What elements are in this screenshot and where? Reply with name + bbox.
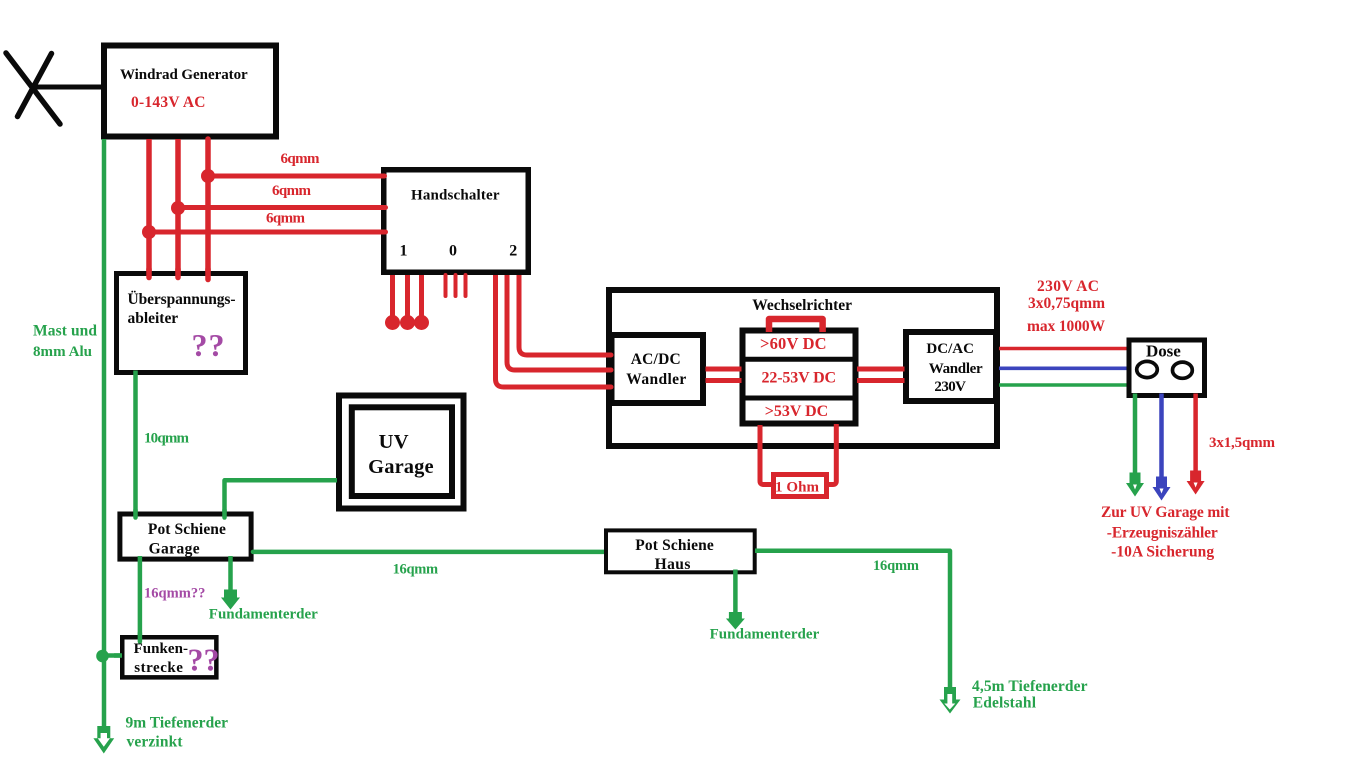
wire 230V line L to Dose (999, 347, 1128, 351)
wire 6qmm top stub over border (376, 174, 385, 179)
svg-text:6qmm: 6qmm (266, 211, 306, 227)
block Handschalter switch S1 (384, 170, 529, 273)
block Pot Schiene Haus (606, 530, 755, 572)
wire terminal 0a stub (444, 275, 448, 296)
svg-text:-Erzeugniszähler: -Erzeugniszähler (1107, 525, 1218, 542)
svg-text:Edelstahl: Edelstahl (973, 695, 1037, 712)
wire phase L2 tip into surge arrester (175, 269, 181, 278)
wire terminal 2b to AC/DC Wandler (507, 275, 612, 370)
svg-text:Windrad Generator: Windrad Generator (120, 67, 248, 83)
svg-text:ableiter: ableiter (128, 310, 179, 327)
svg-text:Haus: Haus (655, 556, 691, 573)
svg-text:9m Tiefenerder: 9m Tiefenerder (126, 715, 229, 732)
wind turbine rotor blade 1 (6, 53, 60, 124)
svg-text:1: 1 (400, 243, 408, 260)
junction node phase L2 (171, 201, 185, 215)
svg-text:Überspannungs-: Überspannungs- (128, 291, 236, 308)
svg-text:verzinkt: verzinkt (127, 734, 184, 751)
wire UV Garage to Pot Schiene Garage (225, 480, 338, 514)
wire 16qmm Haus to Tiefenerder (755, 551, 950, 688)
svg-text:Mast und: Mast und (33, 323, 97, 340)
wire DC bus lower stack to DC/AC (857, 378, 905, 383)
divider line upper (741, 357, 857, 362)
wire 6qmm bottom stub over border (376, 230, 386, 235)
svg-text:16qmm??: 16qmm?? (144, 586, 205, 602)
svg-text:1 Ohm: 1 Ohm (775, 480, 820, 496)
junction node phase L3 (201, 169, 215, 183)
block Dose socket outlet (1129, 340, 1205, 396)
block Windrad Generator (104, 46, 276, 137)
wire 6qmm middle stub over border (376, 205, 386, 210)
arrow 4,5m Tiefenerder outline (940, 687, 961, 714)
wire 230V earth PE to Dose (999, 383, 1128, 387)
svg-text:4,5m Tiefenerder: 4,5m Tiefenerder (972, 678, 1088, 695)
svg-text:230V: 230V (934, 379, 966, 395)
svg-text:>53V DC: >53V DC (765, 403, 828, 420)
wind turbine rotor blade 2 (18, 54, 52, 117)
socket contact left circle (1137, 361, 1158, 377)
block DC/AC Wandler 230V (906, 332, 996, 401)
node terminal 1c dot (414, 315, 429, 330)
wire terminal 2b tip over border (601, 368, 611, 373)
arrow 9m Tiefenerder outline (93, 726, 114, 754)
wire line L down from Dose (1193, 394, 1198, 472)
wire dump load left leg (760, 425, 773, 485)
junction node mast to Funkenstrecke (96, 650, 109, 663)
arrow 4,5m Tiefenerder white inner (944, 694, 955, 710)
svg-text:Pot Schiene: Pot Schiene (148, 521, 226, 538)
node terminal 1a dot (385, 315, 400, 330)
wire phase L3 vertical from generator (205, 139, 211, 279)
svg-text:Wechselrichter: Wechselrichter (752, 297, 852, 314)
wire Fundamenterder Haus shaft (733, 570, 738, 614)
wire DC bus upper stack to DC/AC (857, 367, 905, 372)
svg-text:22-53V DC: 22-53V DC (762, 370, 837, 387)
svg-text:strecke: strecke (134, 660, 183, 676)
svg-text:??: ?? (188, 642, 220, 678)
arrow line L head (1187, 471, 1205, 495)
resistor 1 Ohm dump load (774, 475, 827, 497)
svg-text:Wandler: Wandler (626, 371, 686, 388)
wire phase L3 tip into surge arrester (205, 269, 211, 280)
wire 16qmm Garage to Haus (253, 550, 606, 555)
wire terminal 2c tip over border (601, 353, 611, 358)
wire dump load right leg (825, 424, 836, 485)
svg-text:??: ?? (192, 327, 225, 363)
divider line lower (741, 396, 857, 401)
svg-text:-10A Sicherung: -10A Sicherung (1111, 544, 1214, 561)
svg-text:3x0,75qmm: 3x0,75qmm (1028, 295, 1105, 312)
wire terminal 0c stub (464, 275, 468, 296)
svg-text:3x1,5qmm: 3x1,5qmm (1209, 435, 1276, 451)
wire terminal 0b stub (454, 275, 458, 296)
wire mast to Funkenstrecke stub (103, 653, 123, 658)
svg-text:2: 2 (509, 243, 517, 260)
arrow Fundamenterder Garage head (221, 590, 240, 610)
svg-text:16qmm: 16qmm (393, 562, 439, 578)
block Funkenstrecke spark gap (122, 637, 216, 677)
wire 230V neutral N to Dose (999, 366, 1128, 370)
arrow earth PE head (1126, 473, 1144, 497)
svg-text:8mm Alu: 8mm Alu (33, 344, 92, 360)
svg-text:max 1000W: max 1000W (1027, 318, 1106, 335)
arrow neutral N white notch (1160, 489, 1164, 494)
svg-text:10qmm: 10qmm (144, 431, 190, 447)
arrow earth PE white notch (1133, 485, 1137, 490)
wind turbine shaft wire (33, 85, 104, 90)
wire phase L1 tip into surge arrester (146, 269, 152, 278)
svg-text:Fundamenterder: Fundamenterder (710, 627, 820, 643)
wire 6qmm top to Handschalter (208, 174, 384, 179)
svg-text:Dose: Dose (1146, 342, 1181, 361)
wire tip into Funkenstrecke from Pot Garage (138, 633, 143, 642)
wire 6qmm middle to Handschalter (178, 205, 384, 210)
block UV Garage outer (339, 396, 464, 509)
svg-text:0-143V AC: 0-143V AC (131, 94, 206, 111)
svg-text:0: 0 (449, 243, 457, 260)
wire mast earth conductor (102, 139, 107, 727)
block Ueberspannungsableiter surge arrester (117, 274, 246, 373)
wire tip into Funkenstrecke from mast (114, 653, 122, 658)
svg-text:DC/AC: DC/AC (926, 341, 974, 357)
wire Fundamenterder Garage shaft (228, 556, 233, 591)
wire red bracket above >60V DC (769, 319, 823, 332)
svg-text:Zur UV Garage mit: Zur UV Garage mit (1101, 504, 1230, 521)
node terminal 1b dot (400, 315, 415, 330)
svg-text:Pot Schiene: Pot Schiene (635, 537, 714, 554)
wire Pot Garage to Funkenstrecke (138, 556, 143, 638)
svg-text:UV: UV (379, 431, 409, 453)
svg-text:Fundamenterder: Fundamenterder (209, 607, 318, 623)
wire phase L2 vertical from generator (175, 139, 181, 277)
block voltage window stack (743, 331, 856, 424)
svg-text:Wandler: Wandler (929, 361, 983, 377)
junction node phase L1 (142, 225, 156, 239)
svg-text:16qmm: 16qmm (873, 558, 919, 574)
wire terminal 2a to AC/DC Wandler (496, 275, 613, 387)
block Pot Schiene Garage (120, 514, 251, 559)
svg-text:Garage: Garage (368, 456, 434, 478)
wire DC bus upper AC/DC to stack (706, 367, 742, 372)
block Wechselrichter inverter enclosure (609, 290, 997, 446)
arrow 9m Tiefenerder white inner (98, 733, 110, 747)
wire terminal 1b stub (405, 275, 410, 317)
wire terminal 1a stub (390, 275, 395, 317)
wire earth PE down from Dose (1133, 394, 1138, 474)
wire terminal 2c to AC/DC Wandler (519, 275, 612, 355)
arrow Fundamenterder Haus head (726, 612, 745, 630)
arrow line L white notch (1194, 483, 1198, 488)
svg-text:AC/DC: AC/DC (631, 351, 681, 368)
wire 10qmm tip into Pot Schiene Garage (133, 510, 138, 518)
wire terminal 1c stub (419, 275, 424, 317)
wire DC bus lower AC/DC to stack (706, 378, 742, 383)
block AC/DC Wandler (612, 335, 704, 403)
svg-text:Funken-: Funken- (134, 641, 188, 657)
svg-text:6qmm: 6qmm (281, 151, 321, 167)
svg-text:Garage: Garage (149, 541, 200, 558)
arrow neutral N head (1153, 477, 1171, 501)
socket contact right circle (1173, 362, 1193, 378)
wire neutral N down from Dose (1159, 394, 1164, 478)
wire terminal 2a tip over border (601, 385, 611, 390)
svg-text:>60V DC: >60V DC (760, 334, 827, 353)
wire UV Garage tip into Pot Schiene Garage (222, 510, 227, 518)
svg-text:230V AC: 230V AC (1037, 278, 1099, 295)
block UV Garage inner (352, 407, 452, 496)
svg-text:Handschalter: Handschalter (411, 188, 500, 204)
svg-text:6qmm: 6qmm (272, 183, 312, 199)
wire phase L1 vertical from generator (146, 139, 152, 277)
wire 6qmm bottom to Handschalter (149, 230, 384, 235)
wire 10qmm surge arrester to Pot Schiene Garage (133, 371, 138, 515)
